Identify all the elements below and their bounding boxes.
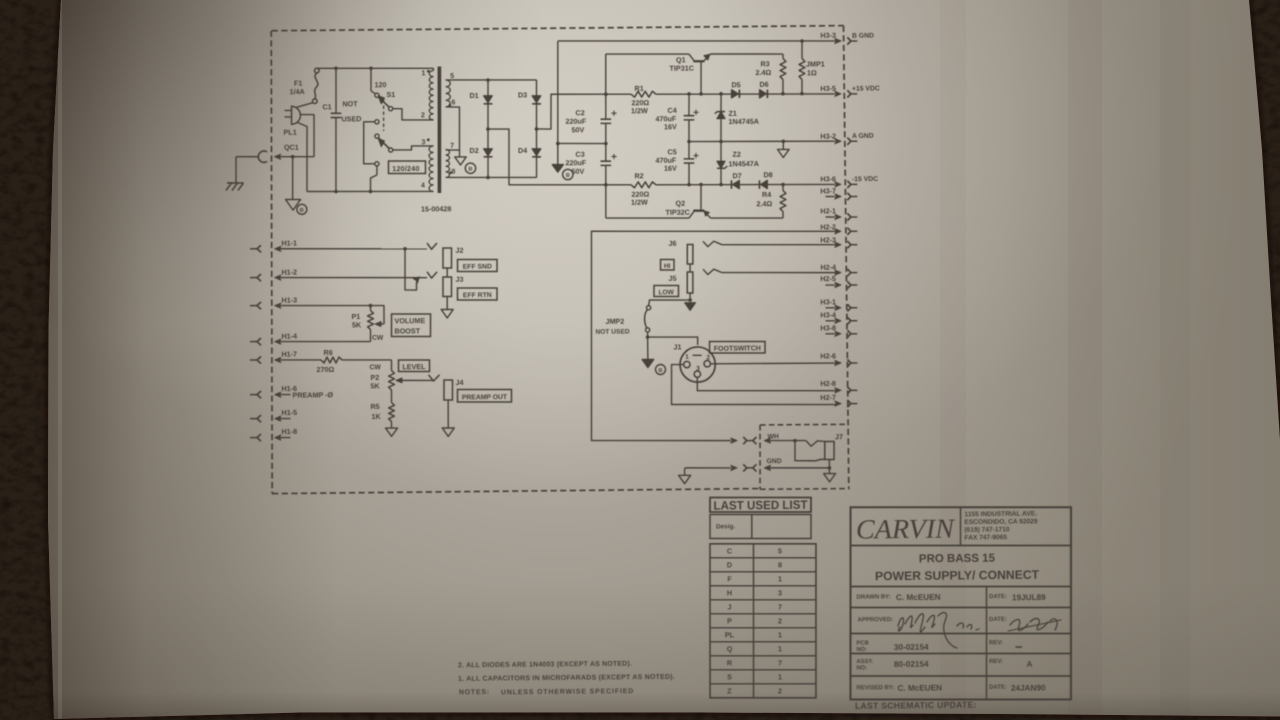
svg-text:1: 1 (685, 354, 689, 361)
svg-text:H3-4: H3-4 (820, 310, 836, 319)
svg-text:PL: PL (725, 630, 735, 639)
svg-text:A: A (1026, 660, 1032, 669)
svg-text:H3-5: H3-5 (820, 84, 836, 93)
svg-text:1/2W: 1/2W (631, 106, 648, 115)
svg-text:CW: CW (372, 335, 384, 342)
svg-text:H2-4: H2-4 (820, 263, 836, 272)
label FOOTSWITCH (709, 341, 765, 354)
svg-text:C. McEUEN: C. McEUEN (896, 593, 941, 602)
svg-text:ASSY.: ASSY. (856, 659, 873, 665)
title block (849, 505, 1073, 701)
svg-text:8: 8 (778, 560, 782, 569)
label EFF RTN (457, 288, 497, 301)
svg-text:H3-3: H3-3 (820, 31, 836, 40)
svg-text:HI: HI (664, 263, 671, 270)
svg-text:USED: USED (341, 114, 361, 123)
table desig box (710, 514, 811, 540)
svg-text:4: 4 (421, 182, 425, 189)
S1 wiring (393, 108, 434, 120)
svg-text:1: 1 (778, 672, 782, 681)
ground stub on A GND (782, 141, 784, 149)
connector pair GND row (743, 464, 747, 468)
ground J4 (447, 400, 449, 428)
label LOW (654, 285, 679, 297)
svg-text:H1-2: H1-2 (281, 267, 297, 276)
svg-text:NO:: NO: (856, 665, 867, 671)
date column divider (985, 586, 988, 633)
svg-text:BOOST: BOOST (394, 326, 420, 335)
svg-text:APPROVED:: APPROVED: (857, 617, 893, 623)
svg-text:LOW: LOW (658, 289, 674, 296)
wire H1-4 (279, 341, 371, 343)
ground R5 (386, 428, 398, 437)
svg-text:Desig.: Desig. (716, 523, 735, 530)
svg-text:JMP2: JMP2 (605, 317, 624, 326)
svg-text:2: 2 (421, 112, 425, 119)
svg-text:FAX 747-9065: FAX 747-9065 (964, 534, 1007, 541)
svg-text:R4: R4 (762, 190, 771, 199)
table data rows (709, 543, 818, 699)
svg-text:J2: J2 (455, 246, 463, 255)
label EFF SND (457, 259, 497, 272)
svg-text:H2-2: H2-2 (820, 222, 836, 231)
svg-text:2: 2 (778, 686, 782, 695)
svg-text:NOT: NOT (342, 99, 358, 108)
svg-text:DATE:: DATE: (989, 617, 1007, 623)
svg-text:A GND: A GND (852, 133, 874, 140)
svg-text:H1-1: H1-1 (281, 238, 297, 247)
svg-text:120: 120 (374, 80, 386, 89)
ground B filter (557, 41, 559, 165)
svg-text:5K: 5K (370, 381, 380, 390)
label box 120/240 (388, 161, 425, 174)
mains top wire (317, 67, 434, 69)
svg-text:19JUL89: 19JUL89 (1012, 593, 1046, 602)
svg-text:5: 5 (778, 546, 782, 555)
svg-text:7: 7 (778, 658, 782, 667)
svg-text:J3: J3 (455, 275, 463, 284)
svg-text:D7: D7 (732, 171, 741, 180)
svg-text:5K: 5K (352, 320, 362, 329)
svg-text:C1: C1 (322, 102, 331, 111)
svg-text:1N4745A: 1N4745A (728, 117, 758, 126)
svg-text:80-02154: 80-02154 (894, 660, 929, 669)
svg-text:Z: Z (727, 686, 732, 695)
svg-text:UNLESS OTHERWISE SPECIFIED: UNLESS OTHERWISE SPECIFIED (501, 688, 634, 696)
J5 ground node (689, 293, 691, 300)
wire J1 pin1 to H2-7 (671, 363, 836, 406)
svg-text:R2: R2 (634, 171, 643, 180)
svg-text:QC1: QC1 (284, 143, 299, 152)
svg-text:30-02154: 30-02154 (894, 643, 929, 652)
svg-text:J6: J6 (668, 239, 676, 248)
svg-text:B: B (658, 368, 662, 374)
svg-text:H1-4: H1-4 (281, 331, 297, 340)
ground B center tap (458, 150, 460, 157)
logo divider (959, 507, 962, 545)
svg-text:2: 2 (778, 616, 782, 625)
svg-text:7: 7 (450, 143, 454, 150)
wire J1 pin2 to H2-6 (710, 363, 715, 365)
bridge minus output (486, 127, 490, 131)
svg-text:CARVIN: CARVIN (856, 513, 956, 545)
svg-text:REV:: REV: (989, 659, 1003, 665)
node QC1 arrow (275, 154, 281, 159)
svg-text:D4: D4 (518, 146, 527, 155)
svg-text:C: C (727, 546, 732, 555)
label HI (660, 259, 674, 270)
svg-text:J7: J7 (835, 432, 843, 441)
label PREAMP OUT (457, 389, 511, 403)
svg-text:EFF SND: EFF SND (463, 264, 492, 271)
svg-text:1N4547A: 1N4547A (728, 159, 758, 168)
svg-text:J5: J5 (668, 274, 676, 283)
svg-text:PL1: PL1 (283, 128, 296, 137)
svg-text:POWER SUPPLY/ CONNECT: POWER SUPPLY/ CONNECT (875, 568, 1040, 584)
svg-text:3: 3 (421, 139, 425, 146)
svg-text:50V: 50V (571, 125, 584, 134)
svg-text:LEVEL: LEVEL (402, 362, 426, 371)
ground B bottom left (292, 156, 294, 158)
svg-text:H3-1: H3-1 (820, 297, 836, 306)
wire sec 5 to bridge (446, 79, 537, 81)
wire H1-1 to J2 (279, 247, 427, 250)
svg-text:LAST SCHEMATIC UPDATE:: LAST SCHEMATIC UPDATE: (855, 700, 977, 711)
svg-text:NOTES:: NOTES: (459, 689, 490, 696)
svg-text:D5: D5 (731, 80, 740, 89)
label LEVEL (398, 360, 429, 372)
svg-text:H1-3: H1-3 (281, 295, 297, 304)
ground J3 (446, 297, 448, 310)
A GND mid rail (689, 140, 835, 143)
table title box (710, 497, 811, 513)
approval date scrawl (1010, 619, 1028, 630)
svg-text:R5: R5 (370, 402, 379, 411)
svg-text:REVISED BY:: REVISED BY: (856, 685, 894, 691)
wire H2-3 with jack contact (703, 241, 722, 247)
svg-text:R: R (727, 658, 733, 667)
J2/J3 bypass loop (405, 249, 417, 291)
svg-text:PREAMP OUT: PREAMP OUT (462, 394, 508, 401)
wire sec 8 to bridge (446, 177, 537, 179)
svg-text:15-00428: 15-00428 (421, 204, 451, 213)
svg-text:H1-5: H1-5 (281, 408, 297, 417)
svg-text:NOT USED: NOT USED (595, 328, 629, 335)
svg-text:-15 VDC: -15 VDC (852, 176, 878, 183)
protective earth symbol (235, 157, 238, 183)
svg-text:B: B (300, 208, 304, 214)
svg-text:DRAWN BY:: DRAWN BY: (856, 594, 890, 600)
ground J7 (824, 473, 836, 482)
bridge plus output (535, 127, 539, 131)
svg-text:H2-6: H2-6 (820, 351, 836, 360)
ground B below QC1 (291, 157, 294, 200)
svg-text:H3-8: H3-8 (820, 323, 836, 332)
svg-text:CW: CW (369, 364, 381, 371)
svg-text:1/2W: 1/2W (631, 198, 648, 207)
svg-text:J: J (727, 602, 731, 611)
svg-text:TIP32C: TIP32C (665, 208, 689, 217)
svg-text:C. McEUEN: C. McEUEN (897, 683, 942, 692)
svg-text:NO:: NO: (856, 647, 867, 653)
svg-text:FOOTSWITCH: FOOTSWITCH (714, 345, 761, 352)
svg-text:1: 1 (778, 644, 782, 653)
svg-text:VOLUME: VOLUME (394, 316, 425, 325)
ground left of J7 (679, 475, 691, 484)
svg-text:5: 5 (450, 73, 454, 80)
label VOLUME BOOST (391, 314, 431, 337)
svg-text:16V: 16V (664, 164, 677, 173)
svg-text:3: 3 (778, 588, 782, 597)
connector pair WH row (743, 437, 747, 441)
svg-text:Z2: Z2 (732, 150, 740, 159)
svg-text:D2: D2 (469, 146, 478, 155)
svg-text:D: D (727, 560, 732, 569)
svg-text:F: F (727, 574, 732, 583)
svg-text:S1: S1 (386, 90, 395, 99)
svg-text:H2-8: H2-8 (820, 379, 836, 388)
svg-text:GND: GND (766, 458, 781, 465)
svg-text:PRO BASS 15: PRO BASS 15 (919, 553, 996, 566)
svg-text:P: P (727, 616, 732, 625)
svg-text:1/4A: 1/4A (289, 87, 304, 96)
svg-text:120/240: 120/240 (392, 164, 419, 173)
svg-text:1: 1 (778, 574, 782, 583)
svg-text:2.4Ω: 2.4Ω (756, 199, 772, 208)
wire H1-2 to J3 (279, 276, 427, 279)
svg-text:D1: D1 (469, 91, 478, 100)
svg-text:H2-1: H2-1 (820, 206, 836, 215)
svg-text:D3: D3 (518, 90, 527, 99)
svg-text:H1-8: H1-8 (281, 427, 297, 436)
svg-text:REV:: REV: (989, 640, 1003, 646)
svg-text:LAST USED LIST: LAST USED LIST (713, 498, 808, 513)
svg-text:1K: 1K (371, 412, 381, 421)
svg-text:Q2: Q2 (675, 199, 685, 208)
transformer core (436, 66, 442, 193)
svg-text:H: H (727, 588, 732, 597)
svg-text:D8: D8 (763, 170, 772, 179)
wire H2-4 with jack contact (703, 269, 722, 275)
svg-text:1: 1 (421, 70, 425, 77)
svg-text:H1-7: H1-7 (281, 349, 297, 358)
svg-text:DATE:: DATE: (989, 594, 1007, 600)
ground B JMP2 (647, 337, 649, 359)
earth wire + grommet (236, 155, 259, 158)
svg-text:B: B (566, 173, 570, 179)
svg-text:1155 INDUSTRIAL AVE.: 1155 INDUSTRIAL AVE. (964, 510, 1037, 518)
svg-text:D6: D6 (759, 80, 768, 89)
WH to sleeve (795, 440, 813, 460)
svg-text:R6: R6 (323, 348, 332, 357)
schematic border (dashed) (272, 25, 844, 31)
svg-text:Q: Q (727, 644, 733, 653)
center tap 6/7 (445, 107, 460, 150)
svg-text:ESCONDIDO, CA 92029: ESCONDIDO, CA 92029 (964, 518, 1037, 526)
svg-text:H2-5: H2-5 (820, 274, 836, 283)
wire J1 pin3 to H2-8 (697, 376, 836, 392)
svg-text:PCB: PCB (857, 641, 869, 647)
svg-text:H3-7: H3-7 (820, 186, 836, 195)
svg-text:6: 6 (451, 99, 455, 106)
svg-text:TIP31C: TIP31C (669, 64, 693, 73)
bottom mains wire (307, 190, 434, 192)
svg-text:(619) 747-1710: (619) 747-1710 (964, 526, 1009, 533)
svg-text:1: 1 (778, 630, 782, 639)
output cable box J7 (dashed) (760, 424, 846, 425)
svg-text:H2-3: H2-3 (820, 235, 836, 244)
svg-text:EFF RTN: EFF RTN (463, 292, 492, 299)
svg-text:PREAMP -Ø: PREAMP -Ø (292, 390, 333, 399)
svg-text:270Ω: 270Ω (316, 365, 334, 374)
svg-text:2.4Ω: 2.4Ω (755, 68, 771, 77)
svg-text:H3-6: H3-6 (820, 174, 836, 183)
svg-text:B: B (468, 167, 472, 173)
svg-text:1Ω: 1Ω (807, 68, 817, 77)
B GND top rail (558, 38, 840, 43)
svg-text:7: 7 (778, 602, 782, 611)
svg-text:J1: J1 (673, 342, 681, 351)
svg-text:H2-7: H2-7 (820, 393, 836, 402)
svg-text:H3-2: H3-2 (820, 132, 836, 141)
svg-text:DATE:: DATE: (989, 685, 1007, 691)
svg-text:16V: 16V (664, 122, 677, 131)
svg-text:J4: J4 (455, 378, 463, 387)
svg-text:S: S (727, 672, 732, 681)
svg-text:24JAN90: 24JAN90 (1011, 683, 1046, 692)
svg-text:B GND: B GND (852, 33, 874, 40)
wire H2-2 long (589, 229, 838, 442)
feed wires to J7 (685, 466, 731, 469)
svg-text:50V: 50V (571, 167, 584, 176)
svg-text:+15 VDC: +15 VDC (852, 85, 880, 92)
signature (898, 618, 904, 631)
